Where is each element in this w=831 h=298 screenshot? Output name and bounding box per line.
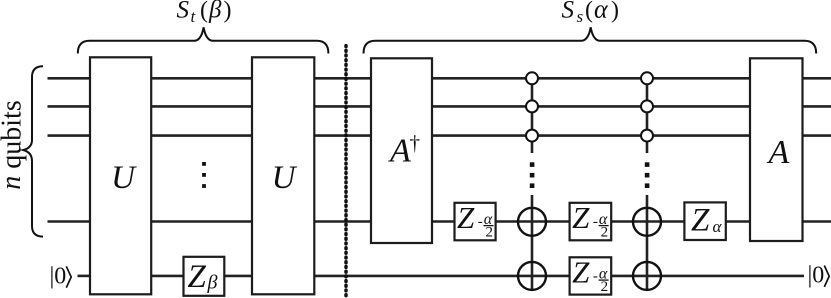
svg-text:Z: Z [457,200,475,235]
cnot target col2 ancilla [633,262,661,290]
svg-text:-: - [478,214,483,230]
svg-text:-: - [593,214,598,230]
gate U1 [90,57,151,294]
svg-text:s: s [577,7,584,26]
wire q4 [48,220,831,223]
svg-text:S: S [177,0,190,24]
ket |0> right [808,263,830,289]
gate Z_-a/2 q4 first [455,200,496,241]
gate A [750,58,803,241]
svg-text:β: β [207,272,218,294]
svg-text:α: α [594,0,609,24]
svg-text:Z: Z [572,255,590,290]
gate Z_alpha [684,202,725,240]
gate U2 [252,57,314,294]
svg-text:Z: Z [691,203,710,239]
svg-text:-: - [593,269,598,285]
svg-text:n qubits: n qubits [0,100,27,189]
svg-text:(: ( [200,0,208,24]
cnot target col1 ancilla [518,262,546,290]
svg-text:|0: |0 [808,263,825,289]
svg-text:): ) [224,0,232,24]
svg-text:(: ( [585,0,593,24]
control col1 q2 [526,100,538,112]
n qubits brace [23,66,43,236]
control col2 q3 [641,130,653,142]
svg-text:2: 2 [601,279,609,295]
svg-text:A: A [767,134,790,171]
label Ss(alpha) [562,0,620,26]
wire q2 [48,105,831,108]
svg-text:A: A [388,133,411,170]
svg-text:†: † [410,131,421,155]
svg-text:U: U [111,160,137,196]
gate Z_-a/2 ancilla [570,255,612,296]
control line column 1 [531,78,534,290]
gate Z_-a/2 q4 second [570,200,612,241]
control dots-ellipsis col1 [530,162,535,188]
svg-text:Z: Z [572,200,590,235]
gate Z_beta [184,257,225,296]
ancilla wire [78,275,805,278]
control col2 q1 [641,72,653,84]
wire q3 [48,134,831,137]
brace St(beta) [78,27,329,53]
cnot target col2 q4 [633,208,661,236]
svg-text:|0: |0 [50,263,67,289]
svg-text:Z: Z [188,259,207,295]
gate A dagger [371,58,432,243]
svg-text:2: 2 [601,225,609,241]
cnot target col1 q4 [518,208,546,236]
wire q1 [48,77,831,80]
svg-text:β: β [208,0,222,24]
label St(beta) [177,0,232,26]
control dots-ellipsis col2 [645,162,650,188]
ellipsis between U gates [202,162,206,188]
svg-text:α: α [713,217,723,236]
brace Ss(alpha) [364,27,817,53]
divider dotted line [344,46,348,298]
control col1 q1 [526,72,538,84]
svg-text:S: S [562,0,575,24]
svg-text:2: 2 [486,225,494,241]
control line column 2 [646,78,649,290]
ket |0> left [50,263,72,289]
control col2 q2 [641,100,653,112]
control col1 q3 [526,130,538,142]
svg-text:U: U [272,160,298,196]
svg-text:): ) [611,0,619,24]
